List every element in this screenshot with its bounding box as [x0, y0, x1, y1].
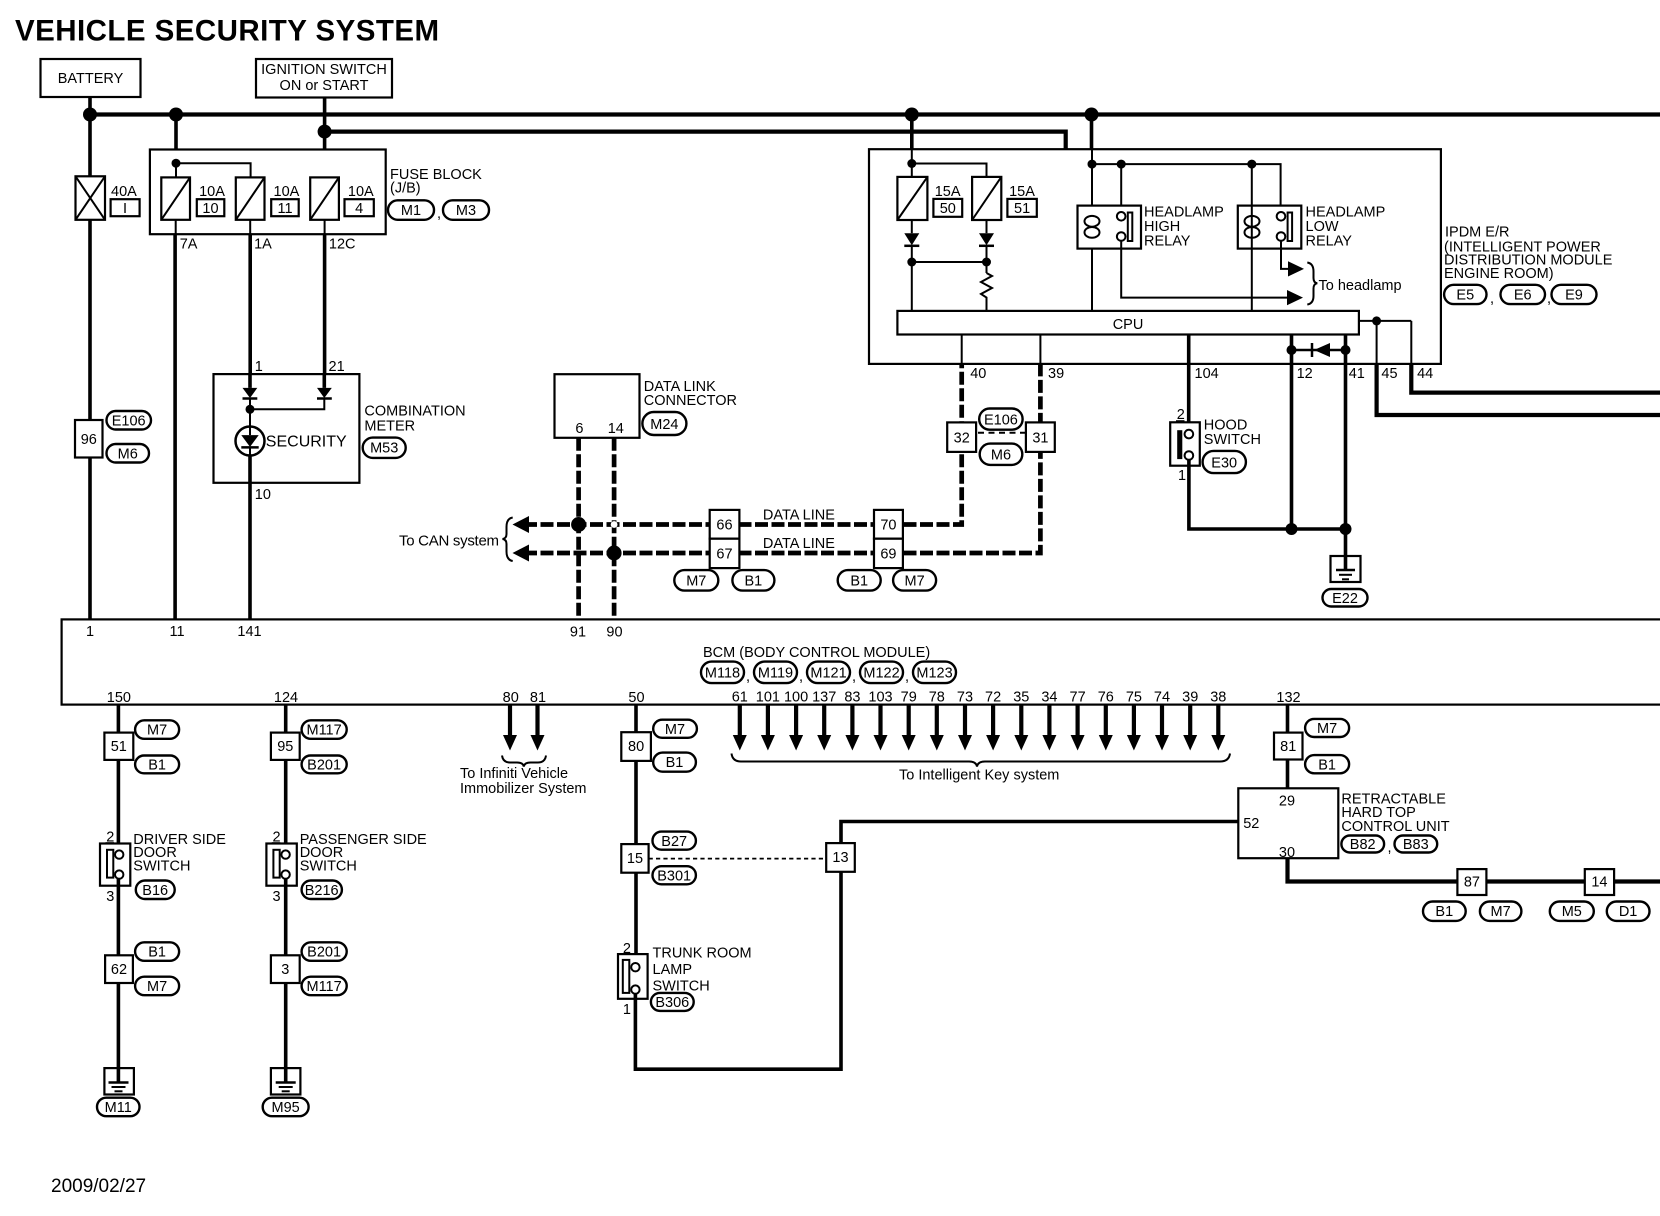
svg-text:1: 1: [623, 1002, 631, 1018]
svg-text:4: 4: [355, 201, 363, 217]
svg-text:M24: M24: [650, 417, 678, 433]
BCM box: [62, 619, 1660, 704]
svg-text:40A: 40A: [111, 184, 137, 200]
svg-text:I: I: [123, 201, 127, 217]
svg-text:B27: B27: [661, 834, 687, 850]
svg-text:29: 29: [1279, 794, 1295, 810]
connector E22 oval: [1323, 589, 1368, 607]
wire CPU pin 104: [1187, 335, 1191, 431]
svg-text:ON or START: ON or START: [280, 78, 369, 94]
wire drop to IPDM fuse 50: [910, 115, 914, 150]
svg-text:10A: 10A: [348, 184, 374, 200]
svg-text:76: 76: [1098, 690, 1114, 706]
svg-text:M3: M3: [456, 203, 476, 219]
connector M7 oval r2: [1480, 902, 1522, 921]
svg-text:52: 52: [1243, 816, 1259, 832]
svg-text:To CAN system: To CAN system: [399, 533, 499, 550]
ground M11: [104, 1068, 133, 1094]
arrow intelligent key 74: [1155, 705, 1169, 751]
fuse 10A #11: [236, 177, 265, 219]
ground M95: [271, 1068, 301, 1094]
wire passenger switch to conn 3: [284, 879, 288, 956]
svg-text:COMBINATION: COMBINATION: [364, 404, 465, 420]
connector 87 box: [1457, 869, 1486, 895]
connector M7 oval d1: [135, 720, 179, 739]
connector M11 oval: [97, 1098, 140, 1117]
wire connector 96 to BCM pin 1: [88, 458, 92, 620]
arrow intelligent key 101: [761, 705, 775, 751]
node IPDM fuse branch: [907, 159, 916, 168]
svg-text:61: 61: [732, 690, 748, 706]
wire CPU pin 40: [961, 335, 963, 364]
node hood ground 41: [1340, 523, 1352, 535]
svg-text:E5: E5: [1456, 288, 1474, 304]
svg-text:B1: B1: [1318, 758, 1336, 774]
svg-text:,: ,: [852, 669, 856, 685]
svg-text:B301: B301: [657, 869, 691, 885]
svg-text:137: 137: [812, 690, 836, 706]
connector M7 oval can: [674, 570, 718, 591]
svg-text:BATTERY: BATTERY: [58, 71, 124, 87]
svg-text:51: 51: [111, 739, 127, 755]
svg-text:15A: 15A: [935, 184, 961, 200]
brace immobilizer: [502, 756, 546, 767]
connector M7 oval r1: [1305, 719, 1349, 737]
arrow intelligent key 137: [817, 705, 831, 751]
svg-text:104: 104: [1195, 366, 1219, 382]
connector M6 oval mid: [980, 444, 1023, 465]
svg-text:44: 44: [1417, 366, 1433, 382]
svg-text:M117: M117: [306, 723, 341, 739]
svg-text:B1: B1: [148, 945, 166, 961]
connector M117 oval p2: [302, 977, 347, 996]
svg-text:51: 51: [1014, 201, 1030, 217]
brace to headlamp: [1307, 263, 1317, 305]
svg-text:78: 78: [929, 690, 945, 706]
wire into fuse 10: [175, 163, 177, 177]
wire conn 62 to ground M11: [117, 983, 121, 1068]
CPU bar: [897, 311, 1359, 335]
node no-connect crossing: [611, 521, 618, 528]
node diode junction 50: [907, 258, 916, 267]
node fuse block branch: [172, 159, 181, 168]
svg-text:M7: M7: [1317, 721, 1337, 737]
svg-text:10: 10: [255, 487, 271, 503]
svg-text:E106: E106: [984, 413, 1018, 429]
node junction battery bus: [83, 108, 97, 122]
svg-text:50: 50: [628, 690, 644, 706]
svg-text:CPU: CPU: [1113, 317, 1144, 333]
brace intelligent key: [732, 754, 1231, 767]
svg-text:15A: 15A: [1009, 184, 1035, 200]
connector B1 oval d1: [135, 756, 179, 774]
resistor IPDM: [981, 273, 992, 311]
connector 66 box: [710, 510, 740, 539]
wire BCM 124 to conn 95: [284, 705, 288, 733]
arrow intelligent key 79: [902, 705, 916, 751]
node hood ground 12: [1286, 523, 1298, 535]
wire conn 13 to RHT 52: [841, 822, 1238, 844]
arrow intelligent key 34: [1042, 705, 1056, 751]
arrow CAN line 2: [513, 545, 530, 562]
svg-text:E9: E9: [1565, 288, 1583, 304]
arrow intelligent key 38: [1211, 705, 1225, 751]
wire pin 44: [1410, 321, 1412, 364]
wire fuse 4 to meter pin 21: [324, 220, 326, 234]
svg-text:77: 77: [1070, 690, 1086, 706]
svg-text:72: 72: [985, 690, 1001, 706]
arrow intelligent key 83: [845, 705, 859, 751]
svg-text:70: 70: [880, 518, 896, 534]
wire 40A fuse to connector 96: [88, 220, 92, 420]
connector B216 oval: [302, 881, 342, 900]
connector M1 oval: [388, 200, 434, 220]
svg-text:81: 81: [530, 690, 546, 706]
wire CAN data line 1: [524, 364, 962, 525]
svg-text:1: 1: [1178, 468, 1186, 484]
wire trunk switch to conn 13: [635, 872, 841, 1069]
connector M7 oval t1: [653, 720, 697, 738]
svg-text:100: 100: [784, 690, 808, 706]
svg-text:M53: M53: [370, 441, 398, 457]
svg-text:1: 1: [255, 359, 263, 375]
connector B1 oval r1: [1305, 755, 1349, 773]
svg-text:1A: 1A: [254, 237, 272, 253]
svg-text:M121: M121: [810, 666, 846, 682]
wire conn 95 to passenger switch: [284, 760, 288, 851]
svg-text:Immobilizer System: Immobilizer System: [460, 781, 587, 797]
wire conn 80 to conn 15: [634, 761, 638, 844]
fuse 15A #50: [897, 177, 927, 220]
wire drop to fuse block: [174, 115, 178, 150]
svg-text:E30: E30: [1211, 456, 1237, 472]
fuse 10A #4: [310, 177, 339, 219]
wire to ground E22: [1344, 529, 1348, 557]
svg-text:B1: B1: [148, 758, 166, 774]
svg-text:15: 15: [627, 851, 643, 867]
svg-text:,: ,: [799, 669, 803, 685]
svg-text:12C: 12C: [329, 237, 356, 253]
svg-text:M11: M11: [105, 1100, 132, 1116]
connector B1 oval t1: [653, 753, 696, 772]
wire bus1 battery feed: [90, 112, 1660, 116]
svg-text:LAMP: LAMP: [653, 962, 693, 978]
svg-text:3: 3: [281, 962, 289, 978]
data link connector box: [555, 374, 640, 438]
wire to high relay contact: [1120, 164, 1122, 214]
svg-text:80: 80: [503, 690, 519, 706]
svg-text:124: 124: [274, 690, 298, 706]
svg-text:SECURITY: SECURITY: [266, 434, 347, 451]
wire conn 81 to RHT 29: [1286, 760, 1290, 789]
svg-text:B1: B1: [1435, 904, 1453, 920]
wire IPDM fuse50 top: [911, 149, 913, 177]
svg-text:M7: M7: [905, 574, 925, 590]
svg-text:SWITCH: SWITCH: [1204, 432, 1261, 448]
wire BCM 50 to conn 80: [634, 705, 638, 733]
svg-text:E22: E22: [1332, 591, 1358, 607]
connector B1 oval can: [732, 570, 774, 591]
svg-text:M7: M7: [147, 979, 167, 995]
connector E30 oval: [1203, 451, 1246, 473]
wire battery stub: [88, 97, 92, 115]
svg-text:To Infiniti Vehicle: To Infiniti Vehicle: [460, 766, 568, 782]
connector M7 oval d2: [135, 977, 179, 996]
connector 70 box: [874, 510, 903, 539]
hood switch: [1170, 422, 1200, 465]
connector 51 box: [104, 733, 133, 760]
svg-text:B1: B1: [850, 574, 868, 590]
node junction IPDM fuse feed: [905, 108, 919, 122]
wire branch to fuse 51: [912, 164, 987, 177]
arrow intelligent key 72: [986, 705, 1000, 751]
arrow intelligent key 78: [930, 705, 944, 751]
svg-text:M118: M118: [705, 666, 740, 682]
svg-text:150: 150: [107, 690, 131, 706]
connector 14 box: [1585, 869, 1614, 895]
svg-text:M122: M122: [863, 666, 899, 682]
svg-text:M6: M6: [118, 447, 138, 463]
svg-text:38: 38: [1210, 690, 1226, 706]
svg-text:D1: D1: [1619, 904, 1638, 920]
svg-text:32: 32: [954, 431, 970, 447]
svg-text:62: 62: [111, 962, 127, 978]
svg-text:,: ,: [1388, 840, 1392, 856]
driver side door switch: [100, 844, 130, 886]
connector B1 oval r2: [1423, 902, 1466, 921]
wire driver switch to conn 62: [117, 879, 121, 956]
svg-text:34: 34: [1041, 690, 1057, 706]
arrow to headlamp bottom: [1287, 290, 1303, 305]
IPDM E/R box: [869, 149, 1441, 364]
arrow intelligent key 100: [789, 705, 803, 751]
connector M24 oval: [642, 412, 686, 435]
svg-text:90: 90: [606, 625, 622, 641]
wire pin 45: [1376, 321, 1378, 364]
diode between 12 and 41: [1287, 343, 1351, 357]
svg-text:B201: B201: [307, 945, 341, 961]
arrow intelligent key 61: [733, 705, 747, 751]
svg-text:45: 45: [1381, 366, 1397, 382]
svg-text:81: 81: [1280, 739, 1296, 755]
svg-text:M7: M7: [665, 722, 685, 738]
wire conn 3 to ground M95: [284, 983, 288, 1068]
connector B201 oval p2: [302, 942, 347, 961]
connector B16 oval: [136, 881, 175, 900]
svg-text:IPDM E/R: IPDM E/R: [1445, 225, 1509, 241]
combination meter box: [214, 374, 360, 483]
svg-text:101: 101: [756, 690, 780, 706]
wire hood switch to ground: [1189, 460, 1346, 529]
connector M122 oval: [860, 662, 903, 684]
svg-text:132: 132: [1276, 690, 1300, 706]
node CPU exit: [1372, 316, 1381, 325]
node diode junction 51: [982, 258, 991, 267]
passenger side door switch: [266, 844, 296, 886]
connector B27 oval: [653, 832, 696, 850]
connector M53 oval: [363, 438, 406, 458]
svg-text:B201: B201: [307, 758, 341, 774]
arrow immobilizer 80: [503, 705, 517, 751]
connector B201 oval p1: [302, 756, 347, 774]
connector 3 box: [271, 955, 300, 983]
connector 81 box: [1274, 733, 1303, 760]
node junction ignition bus2: [318, 125, 332, 139]
headlamp high relay: [1078, 206, 1142, 249]
svg-text:M7: M7: [686, 574, 706, 590]
svg-text:M7: M7: [1491, 904, 1511, 920]
svg-text:14: 14: [608, 421, 624, 437]
wire branch to fuse 11: [176, 163, 251, 177]
svg-text:83: 83: [844, 690, 860, 706]
connector 69 box: [874, 539, 903, 568]
svg-text:M95: M95: [271, 1100, 299, 1116]
wire fuse 10 to BCM pin 11: [175, 220, 177, 234]
connector E6 oval: [1501, 285, 1546, 304]
svg-text:DATA LINE: DATA LINE: [763, 536, 835, 552]
svg-text:E106: E106: [112, 414, 146, 430]
svg-text:75: 75: [1126, 690, 1142, 706]
arrow intelligent key 35: [1014, 705, 1028, 751]
wire diode junction link: [912, 261, 987, 263]
connector M7 oval can right: [893, 570, 936, 591]
svg-text:35: 35: [1013, 690, 1029, 706]
wire low relay coil to CPU: [1251, 164, 1253, 311]
svg-text:39: 39: [1182, 690, 1198, 706]
wire dashed 15 to 13: [649, 858, 827, 860]
wire RHT 30 right: [1288, 858, 1660, 881]
connector 15 box: [621, 844, 648, 873]
diode D2 meter: [250, 374, 332, 409]
connector 96: [75, 420, 103, 458]
svg-text:SWITCH: SWITCH: [133, 859, 190, 875]
arrow intelligent key 77: [1071, 705, 1085, 751]
connector M123 oval: [913, 662, 956, 684]
retractable hard top control unit box: [1238, 788, 1338, 858]
connector B301 oval: [653, 866, 696, 884]
svg-text:To headlamp: To headlamp: [1319, 278, 1402, 294]
svg-text:41: 41: [1349, 366, 1365, 382]
ground E22: [1331, 556, 1361, 582]
connector E106 oval mid: [979, 409, 1022, 430]
wire high relay contact to headlamp arrow: [1121, 241, 1289, 298]
svg-text:67: 67: [716, 547, 732, 563]
connector M118 oval: [701, 662, 744, 684]
connector M121 oval: [807, 662, 850, 684]
connector 95 box: [271, 733, 300, 760]
svg-text:M1: M1: [401, 203, 421, 219]
svg-text:31: 31: [1032, 431, 1048, 447]
trunk room lamp switch: [618, 954, 648, 999]
svg-text:TRUNK ROOM: TRUNK ROOM: [653, 946, 752, 962]
svg-text:(J/B): (J/B): [390, 181, 421, 197]
connector E9 oval: [1552, 285, 1597, 304]
connector M6 oval: [107, 444, 150, 463]
battery box: [41, 59, 141, 97]
diode D1 meter: [243, 388, 258, 409]
svg-text:10A: 10A: [274, 184, 300, 200]
svg-text:,: ,: [746, 669, 750, 685]
svg-text:39: 39: [1048, 366, 1064, 382]
node meter diode junction: [246, 405, 255, 414]
svg-text:50: 50: [940, 201, 956, 217]
svg-text:21: 21: [329, 359, 345, 375]
svg-text:14: 14: [1591, 875, 1607, 891]
svg-text:SWITCH: SWITCH: [300, 859, 357, 875]
svg-text:96: 96: [81, 432, 97, 448]
diode below fuse 50: [904, 220, 919, 311]
svg-text:95: 95: [277, 739, 293, 755]
svg-text:METER: METER: [364, 419, 415, 435]
label fuse I box: [111, 199, 140, 217]
connector 13 box: [826, 843, 855, 872]
wire BCM 132 to conn 81: [1286, 705, 1290, 733]
arrow intelligent key 103: [874, 705, 888, 751]
fuse 10A #10: [161, 177, 190, 219]
wire CAN H DLC to BCM 91: [576, 438, 581, 620]
svg-text:1: 1: [86, 624, 94, 640]
svg-text:11: 11: [169, 624, 184, 640]
svg-text:E6: E6: [1514, 288, 1532, 304]
connector M5 oval: [1550, 902, 1594, 921]
svg-text:B216: B216: [305, 883, 339, 899]
svg-text:B82: B82: [1350, 837, 1376, 853]
svg-text:M123: M123: [916, 666, 952, 682]
svg-text:103: 103: [868, 690, 892, 706]
wire bus2 ignition feed: [325, 132, 1066, 150]
svg-text:CONTROL UNIT: CONTROL UNIT: [1341, 819, 1449, 835]
wire fuse 11 to meter pin 1: [249, 220, 251, 234]
svg-text:3: 3: [273, 889, 281, 905]
fuse 15A #51: [972, 177, 1001, 220]
svg-text:,: ,: [905, 669, 909, 685]
wire dashes between 32 and 31: [978, 432, 1025, 434]
svg-text:M117: M117: [306, 979, 341, 995]
svg-text:87: 87: [1464, 875, 1480, 891]
arrow intelligent key 73: [958, 705, 972, 751]
connector E106 oval: [107, 411, 152, 430]
svg-text:10: 10: [202, 201, 218, 217]
wire CPU pin 12: [1290, 335, 1294, 530]
svg-text:2009/02/27: 2009/02/27: [51, 1176, 146, 1197]
connector 62 box: [105, 955, 133, 983]
node junction fuse block feed: [169, 108, 183, 122]
connector B1 oval can right: [838, 570, 881, 591]
svg-text:,: ,: [1490, 291, 1494, 307]
svg-text:12: 12: [1297, 366, 1313, 382]
connector 80 box: [621, 732, 651, 761]
connector M95 oval: [263, 1098, 309, 1117]
svg-text:141: 141: [237, 624, 261, 640]
svg-text:74: 74: [1154, 690, 1170, 706]
wire meter pin 10 to BCM 141: [249, 447, 251, 455]
wire CPU right exit: [1359, 320, 1411, 322]
svg-text:B1: B1: [666, 755, 684, 771]
svg-text:M119: M119: [758, 666, 793, 682]
wire relay feed horizontal: [1092, 164, 1281, 212]
connector B306 oval: [651, 993, 694, 1011]
wire battery to 40A fuse: [88, 115, 92, 177]
svg-text:VEHICLE SECURITY SYSTEM: VEHICLE SECURITY SYSTEM: [15, 15, 440, 48]
wire CPU pin 39: [1039, 335, 1041, 364]
node relay feed 3: [1247, 160, 1256, 169]
connector M117 oval p1: [302, 720, 347, 739]
connector 67 box: [710, 539, 740, 568]
wire drop to IPDM relays/CPU: [1090, 115, 1094, 150]
connector 31 box: [1026, 422, 1055, 452]
svg-text:91: 91: [570, 625, 586, 641]
svg-text:6: 6: [575, 421, 583, 437]
